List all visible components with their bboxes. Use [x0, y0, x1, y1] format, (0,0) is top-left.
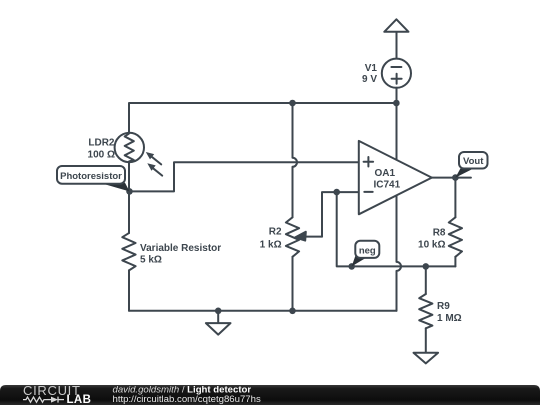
voltage source V1	[382, 59, 411, 88]
photoresistor LDR2	[115, 133, 163, 176]
svg-text:V1: V1	[365, 63, 378, 74]
wire VR bottom to rail	[128, 270, 130, 310]
resistor R8 zigzag	[449, 217, 462, 256]
node Vout junction	[452, 174, 459, 181]
flag Photoresistor	[57, 166, 130, 191]
wire node to op-amp plus input with hop over R2 branch	[130, 162, 359, 191]
wire R2 bottom to rail	[292, 257, 294, 311]
svg-text:Vout: Vout	[463, 156, 484, 167]
variable resistor 5k zigzag	[122, 233, 135, 270]
op-amp plus marking	[364, 157, 374, 167]
svg-text:LAB: LAB	[67, 394, 92, 405]
node V1 top rail junction	[393, 100, 400, 107]
wire Vout node down to R8	[454, 178, 456, 218]
node photoresistor anchor	[126, 188, 133, 195]
wire R2 wiper to minus input	[322, 192, 359, 237]
svg-text:LDR2: LDR2	[88, 138, 115, 149]
node neg anchor	[348, 263, 355, 270]
svg-text:R2: R2	[269, 227, 282, 238]
terminal triangle above V1	[384, 19, 408, 59]
wire op-amp output	[432, 177, 471, 179]
svg-text:10 kΩ: 10 kΩ	[418, 239, 445, 250]
flag Vout	[455, 152, 487, 178]
junction node dots	[126, 100, 459, 314]
node R2 bottom junction	[289, 308, 296, 315]
resistor R9 zigzag	[419, 294, 432, 328]
footer logo schematic squiggle	[23, 397, 64, 403]
svg-text:neg: neg	[359, 245, 376, 256]
wire R8 bottom to feedback rail	[454, 257, 456, 267]
svg-text:1 kΩ: 1 kΩ	[260, 240, 282, 251]
wire R9 branch down	[425, 266, 427, 294]
svg-text:R8: R8	[433, 227, 446, 238]
svg-text:Photoresistor: Photoresistor	[60, 171, 122, 182]
ground symbol bottom center	[206, 311, 231, 335]
node minus input junction	[333, 189, 340, 196]
svg-text:9 V: 9 V	[362, 74, 377, 85]
wire R9 to ground	[425, 328, 427, 353]
svg-text:100 Ω: 100 Ω	[88, 150, 115, 161]
svg-text:http://circuitlab.com/cqtetg86: http://circuitlab.com/cqtetg86u77hs	[113, 394, 261, 405]
wire LDR bottom to variable resistor	[128, 162, 130, 233]
ground symbol below R9	[414, 353, 439, 364]
resistor R2 zigzag (potentiometer)	[286, 217, 299, 256]
svg-text:OA1: OA1	[375, 168, 396, 179]
svg-text:R9: R9	[437, 301, 450, 312]
wire bottom rail	[129, 310, 397, 312]
footer bar	[0, 385, 540, 405]
R2 wiper arrow	[295, 232, 322, 241]
svg-text:1 MΩ: 1 MΩ	[437, 313, 462, 324]
flag neg	[352, 241, 380, 267]
wire minus node down to feedback rail	[337, 192, 456, 266]
svg-text:Variable Resistor: Variable Resistor	[140, 243, 221, 254]
wire top rail	[129, 103, 397, 133]
node ground junction	[215, 308, 222, 315]
svg-text:IC741: IC741	[374, 180, 401, 191]
svg-text:5 kΩ: 5 kΩ	[140, 255, 162, 266]
op-amp OA1 body	[359, 141, 432, 214]
node R9 branch junction	[423, 263, 430, 270]
wire V1 down behind op-amp with hop over feedback wire	[397, 88, 402, 311]
resistor R2 branch from top rail with hop over plus-input wire	[293, 103, 298, 217]
node R2 top junction	[289, 100, 296, 107]
op-amp minus marking	[364, 191, 372, 193]
